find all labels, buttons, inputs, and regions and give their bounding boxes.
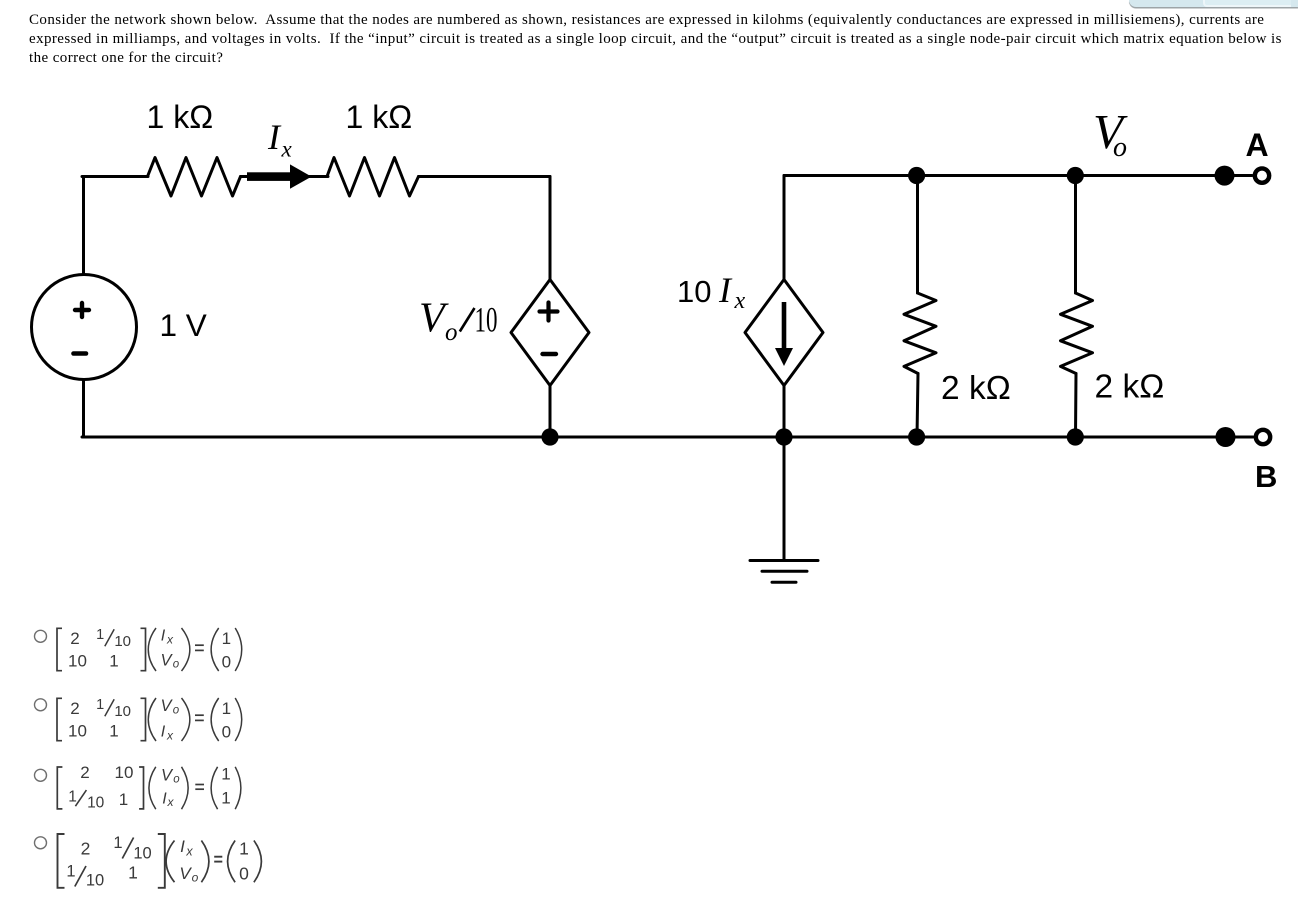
U1 plus sign: [540, 303, 558, 321]
wire down to current source U2: [783, 176, 786, 281]
svg-text:B: B: [1255, 459, 1277, 494]
svg-text:1: 1: [222, 699, 231, 718]
terminal B open circle: [1256, 430, 1270, 444]
V1 minus sign: [74, 351, 87, 356]
svg-text:1 kΩ: 1 kΩ: [346, 99, 413, 135]
V1 plus sign: [75, 303, 89, 317]
svg-text:1 V: 1 V: [160, 307, 207, 343]
resistor R4 2 kOhm (right): [1061, 293, 1093, 374]
option 2 radio: [35, 699, 47, 711]
svg-text:0: 0: [222, 652, 231, 671]
svg-text:10: 10: [68, 722, 87, 741]
junction node dot (R4 bottom): [1067, 428, 1084, 445]
wire top rail right circuit: [784, 174, 1224, 177]
voltage source V1 circle: [32, 275, 137, 380]
svg-text:10: 10: [475, 300, 498, 340]
svg-text:1: 1: [96, 697, 104, 713]
wire R4 bottom lead: [1074, 374, 1078, 438]
svg-text:10: 10: [133, 844, 151, 862]
resistor R2 1 kOhm (right): [327, 158, 419, 197]
ground symbol: [750, 561, 818, 583]
svg-text:V: V: [161, 766, 174, 784]
wire down to dependent source U1: [549, 177, 552, 281]
svg-text:o: o: [1113, 132, 1127, 163]
junction node dot (U1 bottom): [541, 428, 558, 445]
junction node dot (R3 bottom): [908, 428, 925, 445]
wire U2 bottom to bottom rail: [783, 385, 786, 437]
svg-text:2 kΩ: 2 kΩ: [1095, 369, 1165, 406]
option 3 radio: [35, 769, 47, 781]
svg-text:I: I: [267, 117, 282, 157]
option 1 equation: [57, 627, 242, 671]
wire R4 top lead: [1074, 176, 1077, 294]
svg-text:o: o: [173, 659, 180, 671]
wire bottom rail: [82, 436, 1226, 439]
option 3 equation: [57, 763, 241, 812]
current arrow Ix (between R1 and R2): [247, 164, 312, 188]
svg-text:1: 1: [222, 629, 231, 648]
U2 arrow (downward): [782, 302, 787, 350]
resistor R1 1 kOhm (left): [148, 158, 241, 197]
wire terminal B stub: [1226, 436, 1253, 439]
svg-text:I: I: [161, 724, 166, 741]
svg-text:1: 1: [113, 834, 122, 852]
wire ground stem: [783, 437, 786, 560]
svg-text:10: 10: [115, 763, 134, 782]
svg-text:V: V: [160, 697, 173, 715]
svg-text:1: 1: [96, 627, 104, 643]
svg-text:1: 1: [221, 789, 230, 808]
option 1 radio: [35, 630, 47, 642]
dependent current source U2 diamond: [745, 280, 823, 386]
option 4 equation: [58, 834, 262, 890]
question text: [29, 11, 1264, 30]
svg-text:2: 2: [81, 838, 91, 858]
svg-text:x: x: [166, 633, 174, 647]
svg-text:0: 0: [222, 722, 231, 741]
junction node dot (U2 / ground): [775, 428, 792, 445]
terminal A dot: [1215, 166, 1235, 186]
svg-text:o: o: [192, 871, 199, 885]
svg-text:I: I: [180, 837, 185, 856]
wire left vertical bottom (source to bottom rail): [82, 380, 85, 438]
wire terminal A stub: [1224, 174, 1252, 177]
wire top-left horizontal: [82, 175, 148, 178]
dependent voltage source U1 diamond: [511, 280, 589, 386]
svg-text:o: o: [173, 705, 180, 717]
svg-text:0: 0: [239, 864, 249, 884]
junction node dot (R3 top): [908, 167, 925, 184]
wire U1 bottom to bottom rail: [549, 385, 552, 437]
svg-text:2: 2: [80, 763, 89, 782]
svg-text:10: 10: [677, 274, 711, 309]
svg-text:1: 1: [109, 652, 118, 671]
wire between R1 and arrow: [241, 175, 251, 178]
svg-text:1: 1: [128, 863, 138, 883]
svg-text:I: I: [718, 270, 733, 310]
svg-text:10: 10: [114, 703, 131, 720]
svg-text:1: 1: [119, 790, 128, 809]
browser UI remnant: blue tab top-right: [1129, 0, 1298, 7]
svg-text:1: 1: [109, 722, 118, 741]
svg-text:10: 10: [68, 652, 87, 671]
svg-text:1: 1: [221, 765, 230, 784]
svg-text:x: x: [281, 137, 293, 162]
svg-text:10: 10: [114, 633, 131, 650]
svg-text:1: 1: [239, 838, 249, 858]
svg-text:1: 1: [68, 789, 77, 806]
wire arrow tip to R2: [309, 175, 328, 178]
wire R3 bottom lead: [917, 374, 918, 438]
option 4 radio: [35, 837, 47, 849]
wire R3 top lead: [916, 176, 919, 294]
svg-text:x: x: [185, 844, 193, 858]
svg-text:1: 1: [66, 863, 75, 881]
svg-text:V: V: [160, 652, 173, 670]
terminal B dot: [1216, 427, 1236, 447]
wire R2 to corner: [419, 175, 551, 178]
svg-text:I: I: [161, 628, 166, 645]
resistor R3 2 kOhm (left): [904, 293, 936, 374]
wire left vertical top (source to top rail): [82, 177, 85, 275]
svg-text:1 kΩ: 1 kΩ: [147, 99, 214, 135]
svg-text:2: 2: [70, 699, 79, 718]
svg-text:x: x: [167, 795, 175, 809]
svg-text:10: 10: [87, 795, 105, 812]
svg-text:10: 10: [86, 872, 104, 890]
U1 minus sign: [543, 352, 557, 356]
terminal A open circle: [1255, 168, 1269, 182]
option 2 equation: [57, 697, 242, 743]
svg-text:x: x: [734, 288, 746, 314]
svg-text:2: 2: [70, 629, 79, 648]
svg-text:A: A: [1246, 127, 1269, 163]
svg-text:2 kΩ: 2 kΩ: [941, 370, 1011, 407]
svg-text:o: o: [173, 774, 180, 786]
svg-text:x: x: [166, 729, 174, 743]
junction node dot (R4 top): [1067, 167, 1084, 184]
svg-text:V: V: [179, 864, 192, 883]
svg-text:o: o: [445, 319, 458, 346]
